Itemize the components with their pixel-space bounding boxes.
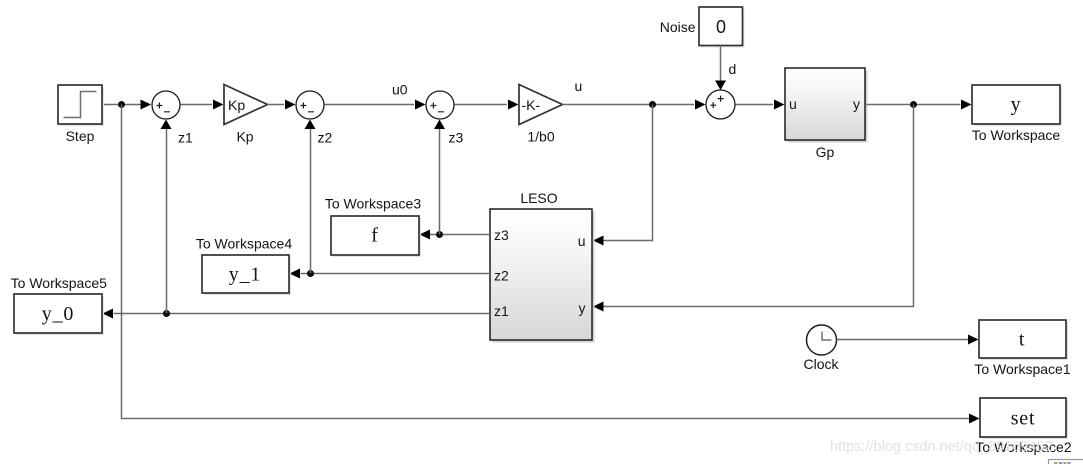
- svg-text:u: u: [789, 96, 797, 112]
- svg-text:To Workspace4: To Workspace4: [196, 236, 292, 252]
- wire set feedback vertical from Step branch: [122, 105, 970, 419]
- arrowhead into y_0 block: [103, 309, 114, 319]
- gain 1/b0: [519, 85, 563, 125]
- wire z3 up to sum3: [439, 128, 441, 235]
- arrowhead into t block: [968, 335, 979, 345]
- arrowhead into gain 1/b0: [508, 100, 519, 110]
- wire LESO z2 out to y_1 block and sum2: [301, 273, 491, 275]
- svg-text:z2: z2: [318, 130, 333, 146]
- wire Gp to y To Workspace: [865, 104, 961, 106]
- svg-text:Gp: Gp: [816, 144, 835, 160]
- sum S3: [426, 91, 454, 119]
- svg-text:t: t: [1019, 329, 1025, 351]
- svg-text:y: y: [1011, 94, 1022, 116]
- block To Workspace2 (set): [982, 400, 1068, 439]
- arrowhead into sum4: [695, 100, 706, 110]
- block To Workspace (y): [974, 87, 1062, 126]
- svg-text:Noise: Noise: [660, 19, 696, 35]
- constant Noise: [701, 9, 745, 48]
- svg-text:Kp: Kp: [236, 129, 253, 145]
- svg-text:y_0: y_0: [42, 303, 74, 325]
- svg-text:Clock: Clock: [803, 356, 839, 372]
- svg-text:https://blog.csdn.net/qq_39169: https://blog.csdn.net/qq_39169462: [830, 439, 1053, 455]
- arrowhead into Kp: [213, 100, 224, 110]
- svg-text:1/b0: 1/b0: [527, 129, 554, 145]
- svg-text:y: y: [579, 300, 586, 316]
- junction dot on z1 net: [163, 310, 170, 317]
- svg-text:z1: z1: [494, 303, 509, 319]
- svg-text:set: set: [1011, 408, 1036, 430]
- wire Clock to t block: [837, 339, 969, 341]
- arrowhead into Gp: [774, 100, 785, 110]
- svg-text:Kp: Kp: [228, 97, 245, 113]
- svg-text:z1: z1: [178, 130, 193, 146]
- subsystem Gp: [788, 71, 868, 143]
- arrowhead into sum1: [141, 100, 152, 110]
- wire Kp to sum2: [268, 104, 285, 106]
- svg-text:u: u: [578, 233, 586, 249]
- sum S4: [706, 90, 735, 119]
- wire sum3 to gain 1/b0: [455, 104, 508, 106]
- gain Kp: [224, 85, 268, 125]
- wire sum2 to sum3: [325, 104, 415, 106]
- junction dot after Step: [118, 101, 125, 108]
- svg-text:LESO: LESO: [520, 190, 557, 206]
- arrowhead into sum4 top: [715, 81, 726, 91]
- arrowhead up into sum1: [161, 120, 172, 130]
- svg-text:f: f: [371, 225, 378, 247]
- svg-text:Step: Step: [66, 128, 95, 144]
- sum S2: [296, 91, 324, 119]
- svg-text:To Workspace: To Workspace: [972, 127, 1061, 143]
- corner widget: [1049, 460, 1083, 464]
- wire z1 up to sum1: [166, 128, 168, 314]
- svg-text:To Workspace3: To Workspace3: [325, 196, 421, 212]
- wire LESO z1 out to y_0 block and sum1: [114, 313, 491, 315]
- arrowhead into sum2: [285, 100, 296, 110]
- block To Workspace5 (y_0): [16, 296, 104, 335]
- block To Workspace3 (f): [333, 218, 421, 257]
- svg-text:u: u: [575, 78, 583, 94]
- wire z2 up to sum2: [310, 128, 312, 274]
- block To Workspace4 (y_1): [204, 257, 291, 295]
- arrowhead into sum3: [415, 100, 426, 110]
- wire LESO z3 out to f block and sum3: [430, 234, 490, 236]
- svg-text:d: d: [729, 61, 737, 77]
- junction dot on z2 net: [307, 270, 314, 277]
- wire Step to sum1: [102, 104, 151, 106]
- arrowhead into set block: [969, 414, 980, 424]
- svg-text:y_1: y_1: [229, 264, 261, 286]
- arrowhead into y_1 block: [290, 269, 301, 279]
- subsystem LESO: [493, 212, 595, 343]
- junction dot on u net: [649, 101, 656, 108]
- svg-text:-K-: -K-: [522, 97, 541, 113]
- svg-text:To Workspace5: To Workspace5: [11, 275, 107, 291]
- source Step: [60, 87, 104, 126]
- svg-text:z2: z2: [494, 268, 509, 284]
- wire u net down into LESO u input: [604, 105, 653, 241]
- arrowhead up into sum2: [305, 120, 316, 130]
- svg-text:y: y: [853, 96, 860, 112]
- wire sum1 to Kp gain: [181, 104, 213, 106]
- arrowhead into y block: [961, 100, 972, 110]
- clock Clock: [807, 325, 837, 355]
- svg-text:z3: z3: [449, 130, 464, 146]
- wire y feedback down into LESO y input: [604, 105, 914, 307]
- wire Noise to sum4 (net d): [720, 46, 722, 83]
- block To Workspace1 (t): [981, 322, 1068, 360]
- arrowhead into f block: [420, 230, 431, 240]
- arrowhead into LESO y port: [593, 302, 604, 312]
- arrowhead up into sum3: [434, 120, 445, 130]
- junction dot after Gp: [910, 101, 917, 108]
- arrowhead into LESO u port: [593, 236, 604, 246]
- junction dot on z3 net: [436, 231, 443, 238]
- sum S1: [152, 91, 180, 119]
- svg-text:u0: u0: [392, 82, 408, 98]
- svg-text:To Workspace1: To Workspace1: [974, 361, 1070, 377]
- wire gain to sum4 (net u): [563, 104, 695, 106]
- svg-text:z3: z3: [494, 227, 509, 243]
- svg-text:0: 0: [716, 17, 726, 37]
- wire sum4 to Gp: [736, 104, 774, 106]
